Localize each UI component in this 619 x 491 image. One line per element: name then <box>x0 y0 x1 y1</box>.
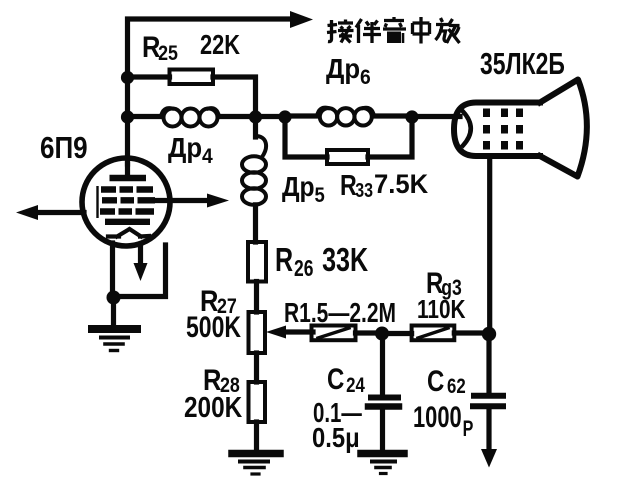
label 6П9 <box>40 131 88 166</box>
capacitor C24 <box>368 340 399 450</box>
svg-text:33: 33 <box>355 179 373 201</box>
ground (under C24) <box>361 454 404 474</box>
svg-text:Др: Др <box>282 171 315 203</box>
label R25 <box>142 30 178 65</box>
cathode lead <box>110 243 115 294</box>
label 22K <box>200 29 240 60</box>
node: Др6 right junction <box>405 110 418 123</box>
svg-text:24: 24 <box>346 374 365 397</box>
wire: Др4 node to Др6 node <box>256 114 286 119</box>
svg-text:33K: 33K <box>322 242 368 279</box>
label Др5 <box>282 171 325 208</box>
svg-text:C: C <box>427 363 444 397</box>
label 35ЛК2Б <box>480 46 565 81</box>
svg-text:4: 4 <box>202 145 213 168</box>
resistor R33 (parallel branch) <box>285 117 412 164</box>
inductor Др6 <box>285 108 412 126</box>
svg-text:7.5K: 7.5K <box>374 168 428 199</box>
wire: anode supply rail (tube top to upper-right arrow) <box>128 19 298 164</box>
screen lead + right arrow <box>152 194 229 208</box>
label R26 33K <box>275 242 368 282</box>
label 接伴音中放 (to sound IF amplifier) <box>327 20 354 43</box>
svg-text:1000: 1000 <box>413 400 462 434</box>
inductor Др5 (vertical) <box>242 117 266 242</box>
label 1000P <box>413 400 473 442</box>
CRT 35ЛК2Б <box>454 80 587 177</box>
node: C62 junction <box>482 327 496 341</box>
grid lead + left arrow <box>16 205 84 220</box>
down arrow (inside cathode loop) <box>134 247 148 281</box>
svg-text:R: R <box>275 242 293 279</box>
capacitor C62 <box>473 334 503 452</box>
label 0.1— <box>313 398 362 429</box>
wire: CRT cathode down to C62 node <box>487 156 492 330</box>
svg-text:500K: 500K <box>186 310 241 343</box>
label 500K <box>186 310 241 343</box>
arrow down (below C62) <box>481 449 497 468</box>
wire R27 to R28 <box>254 353 259 382</box>
suppressor loop wire <box>116 245 166 297</box>
node: Др4 left junction <box>121 110 134 123</box>
node: Др6/R33 left junction <box>278 110 291 123</box>
inductor Др4 <box>128 108 250 126</box>
node: C24 junction <box>375 327 389 341</box>
arrowhead: to sound IF amp <box>290 11 313 28</box>
ground (under R28) <box>232 454 280 475</box>
svg-text:25: 25 <box>158 42 178 66</box>
tube interior: anode, grids, cathode <box>98 164 156 237</box>
svg-text:62: 62 <box>447 375 466 398</box>
svg-text:P: P <box>463 418 474 442</box>
node: R25/rail junction <box>121 71 134 84</box>
label R33 <box>340 168 373 201</box>
resistor R26 <box>248 242 266 282</box>
label Rg3 <box>426 265 462 300</box>
svg-text:Др: Др <box>326 53 360 84</box>
svg-text:5: 5 <box>315 184 325 207</box>
label 200K <box>184 391 243 423</box>
ground (tube cathode) <box>92 329 137 351</box>
svg-text:6П9: 6П9 <box>40 131 88 166</box>
wire R26 to R27 <box>254 282 259 313</box>
resistor Rg3 (adjustable) <box>412 326 482 341</box>
label R28 <box>203 363 240 397</box>
svg-text:6: 6 <box>360 66 371 89</box>
label 110K <box>417 295 466 324</box>
svg-text:0.5μ: 0.5μ <box>312 421 360 453</box>
resistor R28 <box>249 382 266 422</box>
wire: node to CRT grid <box>412 114 460 119</box>
svg-text:35ЛК2Б: 35ЛК2Б <box>480 46 565 81</box>
node: cathode junction <box>107 291 121 305</box>
label 7.5K <box>374 168 428 199</box>
label Др4 <box>168 132 214 168</box>
wire R28 to ground <box>254 422 259 450</box>
wire to ground <box>111 298 116 326</box>
svg-text:C: C <box>327 361 344 395</box>
svg-text:26: 26 <box>294 257 313 282</box>
label Др6 <box>326 53 371 89</box>
label 0.5μ <box>312 421 360 453</box>
label R1.5—2.2M <box>284 298 396 329</box>
wire node to Rg3 <box>382 331 412 336</box>
svg-text:22K: 22K <box>200 29 240 60</box>
svg-text:110K: 110K <box>417 295 466 324</box>
svg-text:200K: 200K <box>184 391 243 423</box>
label C24 <box>327 361 365 397</box>
svg-text:R: R <box>340 168 357 201</box>
label C62 <box>427 363 466 398</box>
resistor R1.5—2.2M (adjustable) <box>312 326 377 341</box>
label R27 <box>200 284 237 318</box>
node: Др5 top junction <box>249 110 262 123</box>
resistor R27 <box>249 312 266 353</box>
svg-text:R1.5—2.2M: R1.5—2.2M <box>284 298 396 329</box>
resistor R25 <box>128 70 256 113</box>
svg-text:Др: Др <box>168 132 202 163</box>
wiper arrow into R27 <box>266 326 313 339</box>
tube 6П9 envelope <box>82 158 170 246</box>
